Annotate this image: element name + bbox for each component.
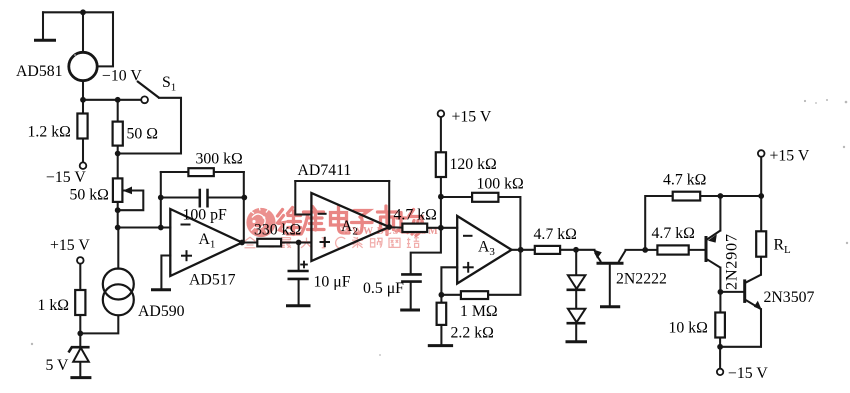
- wire R1.2k to -15V terminal: [82, 139, 84, 163]
- wire A2 feedback right vertical: [388, 181, 390, 227]
- junction A3 + input node: [439, 292, 445, 298]
- wire 100pF left: [161, 196, 200, 198]
- wire 2N2907 emitter up: [719, 196, 721, 231]
- svg-text:4.7 kΩ: 4.7 kΩ: [534, 226, 577, 243]
- svg-text:+15 V: +15 V: [50, 237, 90, 254]
- junction A1 inverting input node: [115, 225, 121, 231]
- svg-text:5 V: 5 V: [46, 357, 70, 374]
- junction top wire at AD581: [80, 9, 86, 15]
- ground at A1 + input: [151, 288, 171, 291]
- wire switch to 50ohm loop: [118, 98, 181, 154]
- terminal +15V right: [758, 150, 765, 157]
- junction 2N2222 collector node: [642, 247, 648, 253]
- wire +15V terminal to 120k: [440, 117, 442, 152]
- svg-text:−15 V: −15 V: [46, 169, 86, 186]
- ground at diodes: [566, 340, 588, 343]
- capacitor 10uF: [288, 261, 351, 291]
- wire into R 50: [117, 100, 119, 122]
- wire node to 2N3507 base: [720, 291, 744, 293]
- resistor 10k: [669, 313, 725, 338]
- terminal +15V left: [77, 257, 84, 264]
- junction 100pF left tap: [158, 195, 164, 201]
- resistor 4.7k upper right: [663, 172, 706, 201]
- junction feedback left at A1 input: [158, 225, 164, 231]
- watermark: [245, 206, 439, 249]
- wire 10uF to ground: [298, 280, 300, 305]
- svg-text:1 MΩ: 1 MΩ: [460, 303, 498, 320]
- wire A3 output to 4.7k: [512, 249, 535, 251]
- terminal -15V left: [80, 162, 87, 169]
- wire node to 10uF: [298, 243, 300, 271]
- wire 2.2k to ground: [440, 325, 442, 345]
- junction A2 + input / 10uF tap: [296, 240, 302, 246]
- junction 1k / AD590 / zener node: [77, 331, 83, 337]
- junction diode clamp node: [573, 247, 579, 253]
- resistor 120k: [436, 152, 497, 177]
- zener 5V: [46, 347, 90, 374]
- wire A3 + input: [441, 267, 457, 295]
- wire 2N2907 collector down: [719, 268, 721, 292]
- resistor 50 ohm: [113, 122, 158, 146]
- junction AD581 output node: [80, 97, 86, 103]
- wire AD590 top: [117, 228, 119, 269]
- svg-text:AD590: AD590: [138, 303, 185, 320]
- svg-text:10 kΩ: 10 kΩ: [669, 320, 708, 337]
- terminal +15V middle: [438, 110, 445, 117]
- junction A1 output: [239, 240, 245, 246]
- wire 4.7k to diode node and 2N2222: [560, 249, 594, 251]
- wire node to diode D1: [575, 250, 577, 275]
- wire 4.7k to A3 inverting input: [427, 227, 457, 229]
- wire lower 4.7k to 2N2907 base: [689, 249, 705, 251]
- transistor 2N2222: [593, 249, 667, 305]
- scan specks: [31, 54, 848, 356]
- potentiometer 50k: [70, 178, 133, 203]
- svg-text:−10 V: −10 V: [102, 68, 142, 85]
- wire zener to ground: [79, 361, 81, 376]
- wire upper 4.7k to +15V rail: [700, 195, 761, 197]
- svg-text:330 kΩ: 330 kΩ: [254, 221, 301, 238]
- wire A1 feedback top right: [214, 171, 244, 173]
- svg-text:100 kΩ: 100 kΩ: [477, 176, 524, 193]
- wire AD581 right loop: [97, 12, 113, 66]
- junction A3 output: [518, 247, 524, 253]
- wire node down-left to 0.5uF: [411, 228, 441, 274]
- wire A2 feedback top: [295, 180, 389, 182]
- svg-text:1.2 kΩ: 1.2 kΩ: [28, 124, 71, 141]
- junction upper 4.7k right / 2N2907 emitter: [718, 193, 724, 199]
- watermark outlined slogan characters (drawn): [245, 237, 420, 249]
- wire into R 1.2k: [82, 100, 84, 114]
- wire node up to upper 4.7k: [645, 196, 673, 250]
- wire node to 2.2k: [440, 295, 442, 303]
- wire A1 feedback right vertical: [243, 172, 245, 243]
- resistor 330k: [254, 221, 301, 246]
- svg-text:AD7411: AD7411: [298, 162, 352, 179]
- wire AD581 bottom: [82, 81, 84, 100]
- ground at 2.2k: [428, 344, 453, 347]
- ground at AD581: [34, 39, 56, 42]
- svg-text:AD517: AD517: [189, 272, 236, 289]
- resistor RL: [756, 231, 791, 256]
- ground at 2N2222: [600, 305, 620, 308]
- switch S1: [137, 74, 176, 103]
- wire AD590 bottom to zener node: [80, 315, 118, 333]
- ground at 10uF: [286, 304, 311, 307]
- wire D2 to ground: [575, 323, 577, 341]
- wire top-left horizontal: [43, 11, 113, 13]
- wire 0.5uF to ground: [410, 282, 412, 309]
- svg-text:2.2 kΩ: 2.2 kΩ: [451, 325, 494, 342]
- watermark big characters (drawn): [278, 206, 423, 236]
- wire A1 feedback top left: [161, 171, 189, 173]
- terminal -15V right: [717, 369, 723, 375]
- svg-text:4.7 kΩ: 4.7 kΩ: [652, 225, 695, 242]
- svg-text:50 kΩ: 50 kΩ: [70, 187, 109, 204]
- svg-text:4.7 kΩ: 4.7 kΩ: [394, 207, 437, 224]
- junction 50 ohm bottom / switch loop: [115, 151, 121, 157]
- current source AD590: [103, 269, 185, 321]
- wire +15V terminal to 1k: [79, 264, 81, 290]
- svg-text:+15 V: +15 V: [452, 108, 492, 125]
- svg-text:+15 V: +15 V: [770, 148, 810, 165]
- voltage reference AD581: [69, 52, 97, 80]
- wire node to 1M: [441, 294, 461, 296]
- wire node to 10k: [719, 292, 721, 313]
- resistor 4.7k lower right: [652, 225, 695, 255]
- wire D1 to D2: [575, 290, 577, 309]
- junction 10k bottom / -15V node: [717, 344, 723, 350]
- capacitor 100pF: [183, 189, 228, 224]
- svg-text:10 μF: 10 μF: [314, 273, 351, 290]
- resistor 100k: [472, 176, 524, 202]
- capacitor 0.5uF: [363, 274, 422, 297]
- wire 10k to -15V node: [719, 338, 721, 369]
- svg-text:0.5 μF: 0.5 μF: [363, 280, 404, 297]
- svg-text:1 kΩ: 1 kΩ: [38, 297, 70, 314]
- wire 1k to node: [79, 315, 81, 334]
- svg-text:2N2222: 2N2222: [616, 271, 667, 288]
- wire 100k feedback right to output: [498, 197, 520, 250]
- resistor 1M: [460, 291, 498, 320]
- resistor 4.7k after A3: [534, 226, 577, 254]
- svg-text:2N2907: 2N2907: [722, 233, 741, 290]
- wire pot wiper loop: [118, 191, 144, 211]
- wire A1 feedback left vertical: [160, 172, 162, 228]
- junction 50 ohm top node: [115, 97, 121, 103]
- wire A2 feedback left: [295, 181, 311, 215]
- junction 120k bottom / 100k tap: [438, 194, 444, 200]
- wire 2N3507 collector to RL: [760, 257, 762, 275]
- svg-text:50 Ω: 50 Ω: [127, 126, 159, 143]
- svg-text:2N3507: 2N3507: [764, 289, 815, 306]
- wire node to pot: [117, 154, 119, 179]
- resistor 300k: [188, 151, 242, 177]
- wire R50 to node: [117, 146, 119, 154]
- svg-text:100 pF: 100 pF: [183, 206, 228, 223]
- op-amp A2: [298, 162, 390, 261]
- wire 100k feedback left: [441, 196, 472, 198]
- wire ground drop: [42, 12, 44, 39]
- diode D2: [567, 309, 586, 323]
- junction A2 output: [386, 224, 392, 230]
- wire 2N3507 emitter to -15V node: [720, 309, 761, 347]
- transistor 2N3507: [745, 275, 815, 310]
- wire A1 output to 330k: [242, 241, 257, 243]
- wire 2N2222 collector to 4.7k node: [626, 249, 646, 251]
- op-amp A3: [457, 216, 511, 284]
- wire 330k to A2 + input: [281, 241, 311, 243]
- transistor 2N2907: [706, 231, 741, 291]
- wire node to lower 4.7k: [645, 249, 657, 251]
- junction pot wiper tie: [115, 207, 121, 213]
- op-amp A1: [170, 209, 242, 289]
- wire node to zener: [79, 333, 81, 347]
- ground at 5V zener: [70, 376, 91, 379]
- svg-text:−15 V: −15 V: [728, 365, 768, 382]
- resistor 2.2k: [437, 303, 494, 342]
- junction +15V rail top: [758, 193, 764, 199]
- resistor 4.7k after A2: [394, 207, 437, 233]
- wire A2 out to 4.7k: [389, 226, 402, 228]
- junction 100pF right tap: [241, 195, 247, 201]
- wire 120k to node: [440, 177, 442, 228]
- wire 100pF right: [208, 196, 244, 198]
- ground at 0.5uF: [400, 309, 420, 312]
- wire pot bottom chain: [117, 202, 119, 228]
- diode D1: [567, 275, 586, 290]
- svg-text:4.7 kΩ: 4.7 kΩ: [663, 172, 706, 189]
- resistor 1k: [38, 290, 86, 315]
- svg-text:300 kΩ: 300 kΩ: [196, 151, 243, 168]
- wire A1 + input to ground: [161, 256, 170, 290]
- svg-text:120 kΩ: 120 kΩ: [450, 156, 497, 173]
- wire +15V right terminal down: [760, 157, 762, 232]
- wire AD581 top: [82, 12, 84, 52]
- wire node row to switch: [83, 99, 141, 101]
- resistor 1.2k: [28, 114, 88, 141]
- junction A3 inverting input node: [438, 225, 444, 231]
- junction 2N2907 collector / 2N3507 base: [718, 289, 724, 295]
- wire 1M to output vertical: [488, 250, 520, 295]
- wire node to A1 inverting input: [118, 226, 171, 228]
- svg-text:AD581: AD581: [16, 63, 63, 80]
